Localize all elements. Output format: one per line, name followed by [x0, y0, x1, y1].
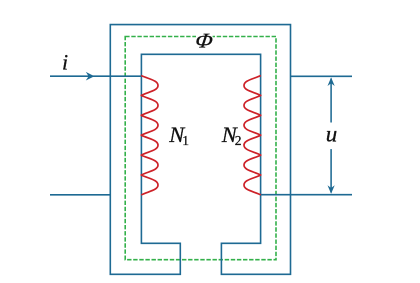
flux path (dashed)	[125, 37, 276, 260]
u measuring arrow lower segment	[330, 149, 332, 192]
coil N2 (secondary winding)	[244, 76, 261, 195]
wire (top-right output)	[291, 75, 353, 77]
u measuring arrow upper segment	[330, 79, 332, 123]
coil N1 (primary winding)	[141, 76, 158, 195]
svg-text:N2: N2	[221, 122, 242, 148]
arrowhead up	[328, 77, 335, 86]
svg-text:N1: N1	[168, 122, 189, 148]
wire (top-left input)	[50, 75, 141, 77]
arrowhead on input wire	[86, 72, 95, 81]
wire (bottom-left)	[50, 194, 110, 196]
wire (bottom-right output)	[261, 194, 352, 196]
svg-text:u: u	[326, 122, 338, 147]
core (magnetic core outline)	[110, 25, 290, 275]
arrowhead down	[328, 185, 335, 194]
white patch behind phi	[196, 30, 213, 49]
svg-text:i: i	[62, 50, 68, 75]
